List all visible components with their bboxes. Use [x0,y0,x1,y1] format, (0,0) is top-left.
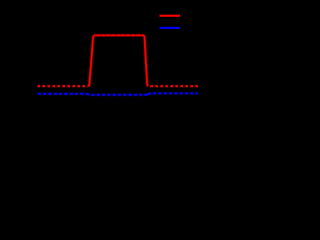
crisp line layer [37,16,198,95]
soft halo underlay [37,16,198,95]
red pulse top dash texture [95,34,144,36]
